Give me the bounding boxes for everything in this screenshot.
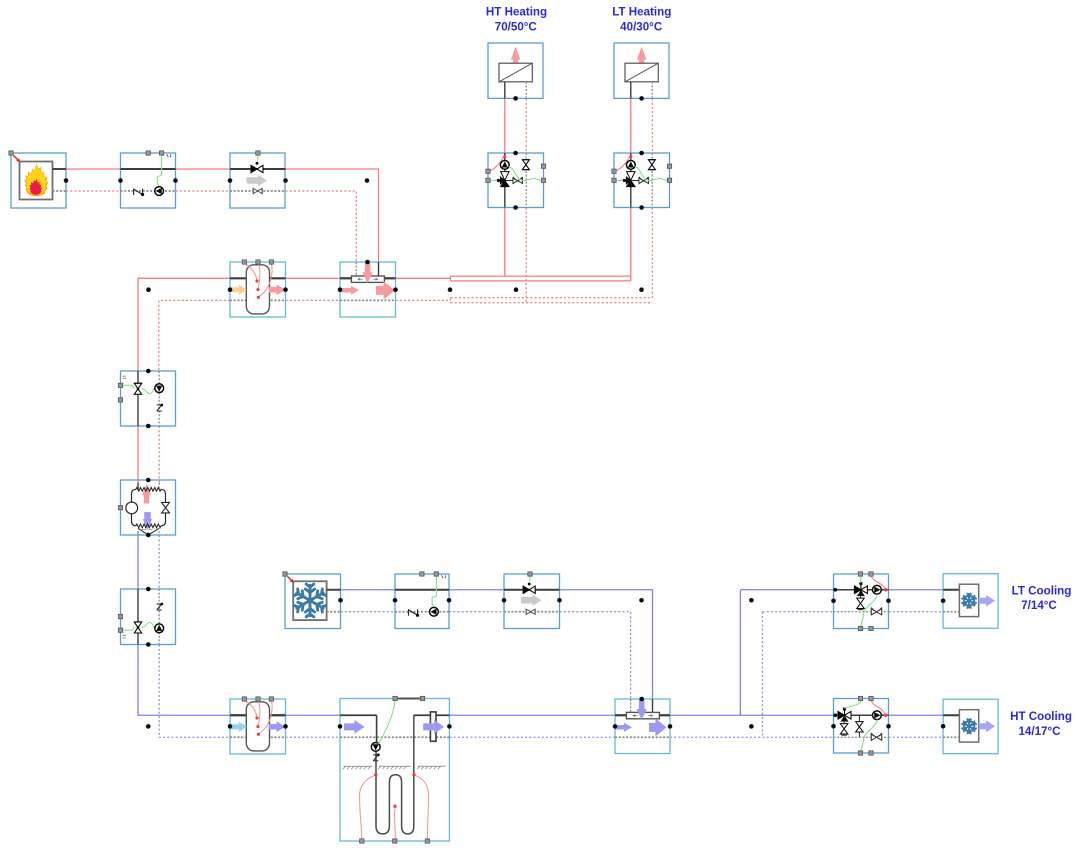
svg-text:40/30°C: 40/30°C — [620, 21, 663, 34]
svg-text:14/17°C: 14/17°C — [1018, 725, 1061, 738]
svg-text:70/50°C: 70/50°C — [495, 21, 538, 34]
svg-text:HT Cooling: HT Cooling — [1010, 710, 1072, 723]
svg-text:LT Heating: LT Heating — [612, 5, 671, 18]
svg-text:HT Heating: HT Heating — [486, 5, 547, 18]
svg-text:LT Cooling: LT Cooling — [1012, 584, 1072, 597]
svg-text:7/14°C: 7/14°C — [1021, 599, 1057, 612]
